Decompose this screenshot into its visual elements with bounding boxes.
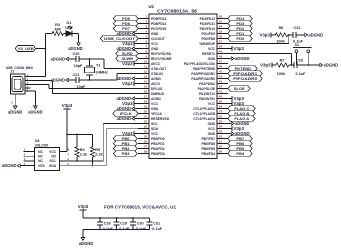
svg-text:PD3/FD11: PD3/FD11 — [200, 22, 215, 26]
U1 pin 5 (CLKOUT) stub — [138, 35, 165, 41]
net flag FIFOADR1 — [228, 71, 262, 76]
svg-text:48: 48 — [219, 55, 223, 59]
wire XTAL top rail — [79, 58, 104, 60]
U1 pin 3 (PD7/FD15) stub — [138, 25, 167, 31]
U1 pin 17 (AGND) stub — [138, 95, 161, 101]
U1 pin 6 (VCC) stub — [138, 40, 159, 46]
J1 pin numbers — [27, 73, 29, 92]
svg-text:23: 23 — [144, 125, 148, 129]
svg-text:PB6/FD6: PB6/FD6 — [201, 142, 215, 146]
power V3p3 pin14 — [122, 81, 138, 86]
U1 pin 45 (PA5/FIFOADR1) stub — [191, 70, 228, 76]
svg-text:aDGND: aDGND — [79, 241, 94, 246]
net flag PB2 — [114, 146, 138, 151]
svg-text:CLKOUT: CLKOUT — [151, 37, 165, 41]
wire D1 to ground — [72, 34, 79, 40]
svg-text:DMINUS: DMINUS — [151, 92, 165, 96]
net flag PD2 — [228, 26, 252, 31]
svg-text:PB4: PB4 — [236, 151, 245, 156]
U1 pin 8 (RDY0/*SLRD) stub — [138, 50, 172, 56]
svg-text:10pF: 10pF — [77, 85, 87, 89]
svg-text:50: 50 — [219, 45, 223, 49]
net flag PB6 — [228, 141, 252, 146]
wire DMINUS — [53, 93, 139, 95]
resistor R5 — [91, 147, 104, 157]
svg-text:CTL0/*FLAGA: CTL0/*FLAGA — [193, 117, 215, 121]
svg-text:18: 18 — [144, 100, 148, 104]
wire R3 to D1 — [64, 33, 67, 35]
U1 pin 4 (GND) stub — [138, 30, 159, 36]
junction crystal top — [89, 58, 91, 60]
svg-text:11: 11 — [144, 65, 148, 69]
U1 pin 40 (PA0/INT0#) stub — [199, 95, 228, 101]
svg-text:C30: C30 — [137, 222, 144, 226]
U1 pin 47 (PA7/*FLAGD/SLCS#) stub — [184, 60, 228, 66]
svg-text:LED: LED — [65, 26, 73, 30]
net flag SLWR — [116, 56, 138, 61]
svg-text:32: 32 — [219, 135, 223, 139]
svg-text:19: 19 — [144, 105, 148, 109]
note text — [104, 205, 177, 210]
wire XTAL bottom rail — [79, 79, 117, 81]
svg-text:GND: GND — [151, 47, 159, 51]
svg-text:53: 53 — [219, 30, 223, 34]
U1 pin 49 (RESET#) stub — [202, 50, 228, 56]
svg-text:21: 21 — [144, 115, 148, 119]
svg-text:V3p3: V3p3 — [233, 46, 244, 51]
svg-text:V3p3: V3p3 — [122, 61, 133, 66]
svg-text:10pF: 10pF — [74, 64, 84, 68]
svg-text:14: 14 — [144, 80, 148, 84]
svg-text:20: 20 — [144, 110, 148, 114]
capacitor C29 — [113, 217, 130, 231]
svg-text:NC: NC — [38, 155, 43, 159]
junction VBUS — [45, 48, 47, 50]
svg-text:VCC: VCC — [208, 127, 216, 131]
power V3p3 of decoupling — [78, 204, 89, 218]
IC U4 24LC00 body — [35, 147, 60, 170]
junction S1 right leg — [307, 64, 309, 66]
capacitor C21 — [72, 73, 86, 89]
svg-text:C28: C28 — [104, 222, 111, 226]
wire to ground decoupling — [82, 229, 84, 234]
svg-text:D1: D1 — [67, 21, 72, 25]
junction R4-SCL — [76, 160, 78, 162]
ground aDGND pin17 — [117, 96, 139, 101]
svg-text:C23: C23 — [296, 59, 303, 63]
net flag PB1 — [114, 141, 138, 146]
svg-text:R6: R6 — [279, 26, 284, 30]
svg-text:SDA: SDA — [151, 127, 159, 131]
svg-text:Y1: Y1 — [96, 63, 101, 67]
net flag PB5 — [228, 146, 252, 151]
wire WAKEUP — [228, 35, 289, 44]
J1 pin2 D- wire — [25, 81, 52, 94]
svg-text:RESET#: RESET# — [202, 52, 215, 56]
U1 pin 37 (CTL1/*FLAGB) stub — [193, 110, 228, 116]
J1 pin5 GND wire — [25, 91, 35, 103]
svg-text:PD7/FD15: PD7/FD15 — [151, 27, 167, 31]
svg-text:2.2k: 2.2k — [95, 153, 103, 157]
power V3p3 of R7 — [260, 63, 276, 68]
ground aDGND pin19 — [117, 106, 139, 111]
U1 pin 44 (PA4/FIFOADR0) stub — [191, 75, 228, 81]
svg-text:100k: 100k — [277, 72, 286, 76]
svg-text:SDA: SDA — [49, 164, 57, 168]
svg-text:GND: GND — [151, 107, 159, 111]
junction crystal bottom — [89, 79, 91, 81]
wire decoupling top rail — [83, 217, 150, 219]
svg-text:24MHz: 24MHz — [96, 70, 109, 74]
junction R6-C22 — [288, 34, 290, 36]
svg-text:XTALOUT: XTALOUT — [151, 67, 166, 71]
svg-text:CTL2/*FLAGC: CTL2/*FLAGC — [193, 107, 215, 111]
svg-text:15: 15 — [144, 85, 148, 89]
svg-text:0.1uF: 0.1uF — [152, 227, 163, 231]
svg-text:PB5/FD5: PB5/FD5 — [201, 147, 215, 151]
svg-text:AVCC: AVCC — [151, 62, 161, 66]
svg-text:R7: R7 — [280, 59, 285, 63]
ground aDGND pin21 — [117, 116, 139, 121]
svg-text:NC: NC — [51, 155, 56, 159]
connector J1 body — [10, 74, 25, 94]
net flag PD6 — [114, 21, 139, 26]
svg-text:U1: U1 — [149, 4, 155, 9]
svg-text:PA5/FIFOADR1: PA5/FIFOADR1 — [191, 72, 215, 76]
wire DPLUS — [49, 88, 138, 90]
svg-text:45: 45 — [219, 70, 223, 74]
svg-text:55: 55 — [219, 20, 223, 24]
U1 pin 21 (RESERVED) stub — [138, 115, 170, 121]
svg-text:38: 38 — [219, 105, 223, 109]
net flag PD7 — [114, 26, 139, 31]
ground aDGND of C22 — [296, 32, 323, 37]
J1 pin3 D+ wire — [25, 85, 49, 89]
svg-text:XTALIN: XTALIN — [151, 72, 163, 76]
svg-text:VCC: VCC — [49, 150, 57, 154]
svg-text:PA2/*SLOE: PA2/*SLOE — [198, 87, 216, 91]
capacitor C28 — [97, 217, 114, 231]
power V3p3 pin10 — [122, 61, 138, 66]
U1 pin 26 (PB1/FD1) stub — [138, 140, 165, 146]
svg-text:51: 51 — [219, 40, 223, 44]
power V3p3 of U4 — [62, 103, 73, 134]
power V3p3 pin24 — [122, 131, 138, 136]
svg-text:27: 27 — [144, 145, 148, 149]
svg-text:34: 34 — [219, 125, 223, 129]
U1 pin 34 (VCC) stub — [208, 125, 228, 131]
svg-text:35: 35 — [219, 120, 223, 124]
U1 pin 55 (PD3/FD11) stub — [200, 20, 228, 26]
svg-text:C29: C29 — [120, 222, 127, 226]
capacitor C20 — [72, 52, 83, 68]
svg-text:aDGND: aDGND — [324, 63, 339, 68]
resistor R3 — [52, 23, 64, 35]
svg-text:100k: 100k — [276, 39, 285, 43]
junction pullup rail R4 — [76, 134, 78, 136]
wire R4 bottom — [76, 157, 78, 161]
capacitor C22 — [288, 26, 304, 44]
svg-text:V3p3: V3p3 — [259, 32, 270, 37]
svg-text:36: 36 — [219, 115, 223, 119]
svg-text:PB7/FD7: PB7/FD7 — [201, 137, 215, 141]
svg-text:26: 26 — [144, 140, 148, 144]
U1 pin 56 (PD4/FD12) stub — [200, 15, 228, 21]
U1 pin 29 (PB4/FD4) stub — [201, 150, 228, 156]
ground aDGND pin13 — [117, 76, 139, 81]
ground aDGND pin35 — [228, 121, 250, 126]
svg-text:PA0/INT0#: PA0/INT0# — [199, 97, 215, 101]
svg-text:AGND: AGND — [151, 97, 161, 101]
svg-text:25: 25 — [144, 135, 148, 139]
svg-text:AGND: AGND — [151, 77, 161, 81]
svg-text:V3p3: V3p3 — [78, 204, 89, 209]
svg-text:PD0/FD8: PD0/FD8 — [201, 37, 215, 41]
svg-text:0.1uF: 0.1uF — [296, 72, 307, 76]
U1 pin 18 (VCC) stub — [138, 100, 159, 106]
svg-text:PA3/*WU2: PA3/*WU2 — [199, 82, 215, 86]
svg-text:PA6/*PKTEND: PA6/*PKTEND — [193, 67, 216, 71]
power flag V3_USB — [15, 46, 35, 52]
ground aDGND decoupling — [79, 234, 94, 246]
svg-text:V3p3: V3p3 — [122, 81, 133, 86]
U1 pin 10 (AVCC) stub — [138, 60, 161, 66]
U1 pin 54 (PD2/FD10) stub — [200, 25, 228, 31]
U1 pin 20 (*IFCLK) stub — [138, 110, 163, 116]
net flag IFCLK — [113, 111, 138, 116]
svg-text:52: 52 — [219, 35, 223, 39]
svg-text:24LC00: 24LC00 — [35, 143, 49, 147]
ground aDGND of C21 — [51, 78, 73, 83]
power V3p3 pin6 — [122, 41, 138, 46]
power V3p3 pin39 — [228, 101, 245, 106]
net flag PD1 — [228, 31, 252, 36]
svg-text:2.2k: 2.2k — [80, 153, 88, 157]
svg-text:43: 43 — [219, 80, 223, 84]
U1 pin 28 (PB3/FD3) stub — [138, 150, 165, 156]
svg-text:29: 29 — [219, 150, 223, 154]
svg-text:RESERVED: RESERVED — [151, 117, 170, 121]
U1 pin 38 (CTL2/*FLAGC) stub — [193, 105, 228, 111]
svg-text:VCC: VCC — [151, 42, 159, 46]
svg-text:16: 16 — [144, 90, 148, 94]
crystal Y1 — [85, 59, 109, 80]
U1 pin 48 (GND) stub — [208, 55, 228, 61]
svg-text:28: 28 — [144, 150, 148, 154]
svg-text:10: 10 — [144, 60, 148, 64]
net flag SLRD — [116, 51, 138, 56]
svg-text:PD6/FD14: PD6/FD14 — [151, 22, 167, 26]
svg-text:46: 46 — [219, 65, 223, 69]
svg-text:aDGND: aDGND — [51, 57, 66, 62]
ground aDGND of D1 — [68, 40, 83, 52]
U1 pin 42 (PA2/*SLOE) stub — [198, 85, 228, 91]
svg-text:aDGND: aDGND — [68, 46, 83, 51]
resistor R6 — [275, 26, 288, 44]
U1 pin 50 (VCC) stub — [208, 45, 228, 51]
svg-text:CTL1/*FLAGB: CTL1/*FLAGB — [193, 112, 215, 116]
capacitor C31 — [146, 218, 163, 231]
svg-text:PB2/FD2: PB2/FD2 — [151, 147, 165, 151]
svg-text:PB4/FD4: PB4/FD4 — [201, 152, 215, 156]
svg-text:PB3: PB3 — [122, 151, 131, 156]
U4 pin row 4/5 — [24, 162, 70, 168]
U1 pin 52 (PD0/FD8) stub — [201, 35, 228, 41]
svg-text:22: 22 — [144, 120, 148, 124]
U1 pin 2 (PD6/FD14) stub — [138, 20, 167, 26]
ground aDGND pin7 — [117, 46, 139, 51]
svg-text:44: 44 — [219, 75, 223, 79]
svg-text:aDGND: aDGND — [2, 163, 17, 168]
IC U1 CY7C68013A_56 body — [149, 4, 218, 158]
svg-text:C22: C22 — [294, 26, 301, 30]
svg-text:41: 41 — [219, 90, 223, 94]
capacitor C30 — [130, 217, 147, 231]
svg-text:DPLUS: DPLUS — [151, 87, 163, 91]
svg-text:NC: NC — [38, 150, 43, 154]
U1 pin 27 (PB2/FD2) stub — [138, 145, 165, 151]
U1 pin 15 (DPLUS) stub — [138, 85, 163, 91]
svg-text:SCL: SCL — [49, 159, 56, 163]
svg-text:PB1/FD1: PB1/FD1 — [151, 142, 165, 146]
wire R5 top — [92, 134, 94, 146]
svg-text:PD4/FD12: PD4/FD12 — [200, 17, 216, 21]
net flag PD0 — [228, 36, 252, 41]
net flag SLOE — [228, 86, 250, 91]
U4 pin row 3/6 — [24, 157, 70, 163]
wire R5 bottom — [92, 157, 94, 166]
wire U4 VCC riser — [59, 134, 67, 151]
U1 pin 36 (CTL0/*FLAGA) stub — [193, 115, 228, 121]
svg-text:SLOE: SLOE — [234, 86, 245, 91]
svg-text:GND: GND — [151, 32, 159, 36]
U1 pin 19 (GND) stub — [138, 105, 159, 111]
junction pullup rail left — [66, 134, 68, 136]
U1 pin 22 (SCL) stub — [138, 120, 158, 126]
U1 pin 46 (PA6/*PKTEND) stub — [193, 65, 228, 71]
U1 pin 31 (PB6/FD6) stub — [201, 140, 228, 146]
svg-text:V3p3: V3p3 — [260, 63, 271, 68]
svg-text:R5: R5 — [95, 148, 100, 152]
resistor R4 — [75, 147, 88, 157]
net flag PKTEND — [228, 66, 257, 71]
U1 pin 30 (PB5/FD5) stub — [201, 145, 228, 151]
U1 pin 12 (XTALIN) stub — [138, 70, 163, 76]
wire XTALOUT — [104, 59, 138, 69]
U1 pin 14 (AVCC) stub — [138, 80, 161, 86]
svg-text:FOR CY7C68013, VCC&AVCC, U1: FOR CY7C68013, VCC&AVCC, U1 — [104, 205, 177, 210]
LED D1 — [65, 21, 73, 36]
wire decoupling bottom rail — [83, 228, 150, 230]
svg-text:0.1uF: 0.1uF — [103, 227, 114, 231]
wire RESET# — [228, 54, 292, 66]
svg-text:37: 37 — [219, 110, 223, 114]
svg-text:RDY0/*SLRD: RDY0/*SLRD — [151, 52, 172, 56]
ground aDGND of C20 — [51, 57, 73, 62]
net flag FIFOADR0 — [228, 76, 262, 81]
svg-text:30: 30 — [219, 145, 223, 149]
net flag USB_CLKOUT — [101, 36, 139, 41]
svg-text:33: 33 — [219, 130, 223, 134]
svg-text:aDGND: aDGND — [8, 109, 23, 114]
ground aDGND U4 VSS — [2, 163, 24, 168]
power V3p3 pin34 — [228, 126, 245, 131]
net flag PD3 — [228, 21, 252, 26]
svg-text:C20: C20 — [73, 52, 80, 56]
U1 pin 35 (GND) stub — [208, 120, 228, 126]
svg-text:VCC: VCC — [208, 102, 216, 106]
power V3p3 pin40 — [228, 96, 245, 101]
svg-text:V3_USB: V3_USB — [18, 47, 34, 51]
power V3p3 of R6 — [259, 32, 275, 37]
net flag PB0 — [114, 136, 138, 141]
svg-text:47: 47 — [219, 60, 223, 64]
svg-text:42: 42 — [219, 85, 223, 89]
svg-text:C31: C31 — [153, 222, 160, 226]
capacitor C23 — [289, 59, 306, 76]
svg-text:PD2/FD10: PD2/FD10 — [200, 27, 216, 31]
svg-text:aDGND: aDGND — [51, 78, 66, 83]
U1 pin 43 (PA3/*WU2) stub — [199, 80, 228, 86]
U1 pin 13 (AGND) stub — [138, 75, 161, 81]
power V3p3 pin18 — [122, 101, 138, 106]
U1 pin 33 (GND) stub — [208, 130, 228, 136]
svg-text:PD0: PD0 — [236, 36, 245, 41]
svg-text:0.1uF: 0.1uF — [136, 227, 147, 231]
wire SCL net — [59, 124, 138, 161]
svg-text:17: 17 — [144, 95, 148, 99]
net flag PB7 — [228, 136, 252, 141]
junction R7-C23 — [291, 64, 293, 66]
wire pullup rail — [67, 133, 93, 135]
svg-text:PA7/*FLAGD/SLCS#: PA7/*FLAGD/SLCS# — [184, 62, 215, 66]
ground aDGND pin48 — [228, 56, 250, 61]
svg-text:C21: C21 — [73, 73, 80, 77]
wire SDA net — [59, 129, 138, 166]
U1 pin 24 (VCC) stub — [138, 130, 159, 136]
svg-text:PB3/FD3: PB3/FD3 — [151, 152, 165, 156]
svg-text:aDGND: aDGND — [117, 116, 132, 121]
svg-text:499: 499 — [54, 27, 60, 31]
svg-text:GND: GND — [208, 122, 216, 126]
junction R5-SDA — [92, 165, 94, 167]
U1 pin 9 (RDY1/*SLWR) stub — [138, 55, 172, 61]
svg-text:aDGND: aDGND — [309, 32, 324, 37]
svg-text:13: 13 — [144, 75, 148, 79]
U1 pin 41 (PA1/INT1#) stub — [199, 90, 228, 96]
svg-text:31: 31 — [219, 140, 223, 144]
power V3p3 pin50 — [228, 46, 245, 51]
wire VBUS to R3 — [45, 33, 52, 35]
U1 pin 39 (VCC) stub — [208, 100, 228, 106]
svg-text:VSS: VSS — [38, 164, 45, 168]
svg-text:PA4/FIFOADR0: PA4/FIFOADR0 — [191, 77, 215, 81]
svg-text:RDY1/*SLWR: RDY1/*SLWR — [151, 57, 172, 61]
net flag PD4 — [228, 16, 252, 21]
svg-text:SCL: SCL — [151, 122, 158, 126]
svg-text:24: 24 — [144, 130, 148, 134]
net flag PB4 — [228, 151, 252, 156]
svg-text:CY7C68013A_56: CY7C68013A_56 — [157, 9, 198, 14]
svg-text:NC: NC — [38, 159, 43, 163]
U1 pin 32 (PB7/FD7) stub — [201, 135, 228, 141]
svg-text:aDGND: aDGND — [28, 109, 43, 114]
svg-text:49: 49 — [219, 50, 223, 54]
svg-text:*IFCLK: *IFCLK — [151, 112, 163, 116]
U1 pin 51 (*WAKEUP) stub — [199, 40, 228, 46]
connector J1 USB_CONN_MINI labels — [6, 66, 33, 74]
wire C23 to ground — [297, 64, 317, 66]
